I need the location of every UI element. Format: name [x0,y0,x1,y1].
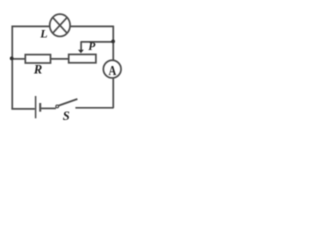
svg-text:P: P [88,41,96,53]
svg-text:S: S [63,109,70,123]
svg-text:A: A [109,63,117,78]
svg-text:L: L [39,27,47,41]
svg-text:R: R [33,63,42,77]
